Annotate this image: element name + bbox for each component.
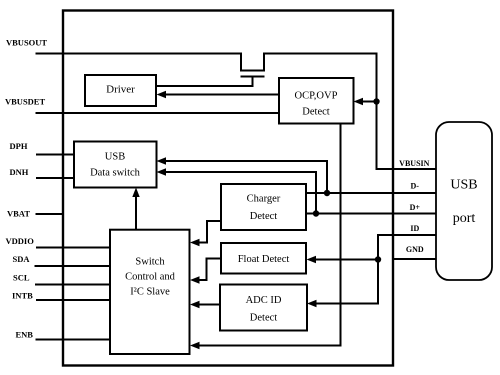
- block Switch Control and I2C Slave: [110, 230, 190, 354]
- block ADC ID Detect: [220, 285, 307, 331]
- wire ENB: [36, 339, 111, 341]
- arrowhead into ADC ID Detect: [307, 300, 317, 307]
- svg-text:D+: D+: [410, 203, 421, 212]
- wire VDDIO: [36, 247, 110, 249]
- arrowhead into Switch Control from OCP,OVP output: [190, 342, 200, 349]
- transistor Q1 gate bar: [241, 76, 265, 78]
- junction node on ID line at Float branch: [375, 256, 381, 262]
- svg-text:Detect: Detect: [250, 313, 277, 324]
- outer block boundary: [63, 11, 393, 366]
- wire SCL: [35, 284, 110, 286]
- arrowhead into Switch Control from ADC ID Detect: [190, 301, 200, 308]
- wire INTB: [36, 299, 110, 301]
- wire Charger Detect to D+ port line: [306, 213, 436, 215]
- svg-text:OCP,OVP: OCP,OVP: [295, 91, 338, 102]
- svg-text:VDDIO: VDDIO: [6, 236, 35, 246]
- svg-text:DNH: DNH: [10, 167, 29, 177]
- junction node on VBUS at OCP input: [373, 98, 379, 104]
- wire VBUSDET to OCP,OVP Detect: [36, 112, 280, 114]
- wire SDA: [35, 265, 111, 267]
- block Charger Detect: [221, 184, 306, 230]
- wire Charger Detect to Switch Control: [198, 221, 221, 243]
- svg-text:ADC ID: ADC ID: [246, 295, 282, 306]
- svg-text:GND: GND: [406, 245, 424, 254]
- wire ID line and branch down to ADC ID Detect: [315, 235, 436, 304]
- arrowhead into Driver: [157, 91, 167, 98]
- svg-text:I²C Slave: I²C Slave: [130, 287, 170, 298]
- wire gate to Driver output: [157, 77, 253, 87]
- svg-text:Driver: Driver: [106, 84, 135, 96]
- arrowhead into USB Data switch row1: [157, 157, 167, 164]
- wire VBAT: [36, 213, 64, 215]
- svg-text:VBUSIN: VBUSIN: [399, 159, 429, 168]
- junction node on D- line: [324, 190, 330, 196]
- svg-text:ID: ID: [410, 224, 419, 233]
- arrowhead up into USB Data switch bottom: [132, 188, 139, 198]
- svg-text:INTB: INTB: [12, 291, 33, 301]
- wire OCP,OVP Detect to Driver input: [164, 94, 279, 96]
- block Driver: [85, 75, 156, 106]
- wire ADC ID Detect to Switch Control: [198, 304, 220, 306]
- svg-text:SCL: SCL: [13, 273, 30, 283]
- block Float Detect: [221, 243, 306, 274]
- svg-text:ENB: ENB: [16, 330, 34, 340]
- svg-text:port: port: [453, 211, 476, 226]
- wire VBUSOUT/VBUS path with pass-transistor channel, to VBUSIN: [36, 54, 437, 170]
- svg-text:VBAT: VBAT: [7, 209, 30, 219]
- svg-text:Float Detect: Float Detect: [238, 254, 290, 265]
- wire DPH: [36, 154, 74, 156]
- svg-text:USB: USB: [450, 178, 477, 193]
- svg-text:DPH: DPH: [10, 141, 28, 151]
- wire OCP,OVP Detect output down to Switch Control: [198, 124, 341, 346]
- svg-text:VBUSOUT: VBUSOUT: [6, 38, 47, 48]
- arrowhead into OCP,OVP Detect: [354, 98, 364, 105]
- wire ID node to Float Detect input: [314, 259, 378, 261]
- wire Charger Detect to D- port line: [306, 192, 436, 194]
- wire D- branch to USB Data switch: [165, 161, 327, 193]
- svg-text:Control and: Control and: [125, 272, 176, 283]
- arrowhead into Switch Control from Charger Detect: [190, 239, 200, 246]
- wire DNH: [36, 177, 74, 179]
- arrowhead into USB Data switch row2: [157, 168, 167, 175]
- svg-text:Charger: Charger: [247, 194, 281, 205]
- svg-text:Switch: Switch: [135, 257, 165, 268]
- block USB port: [436, 122, 492, 280]
- wire VBUS node to OCP,OVP Detect input: [361, 101, 377, 103]
- svg-text:Data switch: Data switch: [90, 168, 141, 179]
- svg-text:D-: D-: [410, 181, 419, 190]
- junction node on D+ line: [313, 210, 319, 216]
- wire Float Detect to Switch Control: [198, 259, 221, 281]
- block USB Data switch: [74, 142, 157, 188]
- svg-text:VBUSDET: VBUSDET: [5, 97, 45, 107]
- wire Switch Control up to USB Data switch: [135, 196, 137, 230]
- svg-text:Detect: Detect: [302, 107, 329, 118]
- arrowhead into Switch Control from Float Detect: [190, 276, 200, 283]
- svg-text:Detect: Detect: [250, 211, 277, 222]
- svg-text:USB: USB: [105, 152, 125, 163]
- wire D+ branch to USB Data switch: [165, 172, 316, 214]
- svg-text:SDA: SDA: [13, 254, 31, 264]
- block OCP,OVP Detect: [279, 78, 354, 124]
- arrowhead into Float Detect: [307, 256, 317, 263]
- wire GND to port: [393, 258, 436, 260]
